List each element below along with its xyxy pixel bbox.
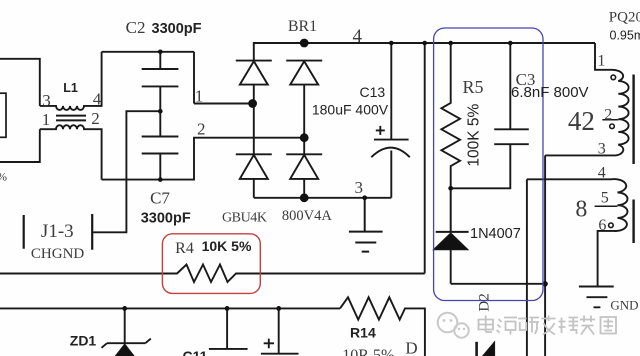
svg-text:4: 4 (598, 164, 606, 181)
resistor R4 (0, 265, 425, 283)
transformer secondary winding (527, 179, 628, 231)
junction output cap (276, 306, 281, 311)
svg-text:D: D (405, 339, 417, 356)
zener ZD1 (102, 308, 151, 347)
transformer tap pin5 (595, 205, 618, 207)
svg-text:5: 5 (601, 190, 609, 207)
capacitor C3 (494, 43, 529, 144)
junction C3 rail (508, 41, 513, 46)
svg-text:6.8nF 800V: 6.8nF 800V (511, 84, 589, 101)
junction C13 rail (389, 41, 394, 46)
transformer core (632, 75, 634, 244)
svg-text:C2: C2 (126, 18, 146, 37)
capacitor C13 (371, 43, 410, 198)
diode bridge lower-left (236, 104, 272, 198)
diode bridge upper-right (286, 61, 322, 138)
wire bottom rail / node2 to bridge (102, 138, 305, 180)
svg-text:1: 1 (597, 53, 605, 70)
svg-text:C13: C13 (359, 84, 385, 100)
phase dot pin6 (609, 223, 614, 228)
svg-text:180uF 400V: 180uF 400V (312, 102, 389, 118)
svg-text:PQ20: PQ20 (609, 10, 640, 26)
wire secondary rail (0, 307, 340, 309)
resistor R5 (441, 43, 460, 188)
svg-text:800V4A: 800V4A (282, 208, 332, 224)
blue highlight box snubber (434, 28, 543, 301)
svg-text:%: % (0, 169, 7, 183)
transformer primary winding (595, 43, 629, 155)
inductor L1 bottom winding (0, 125, 102, 179)
svg-text:2: 2 (91, 109, 100, 128)
resistor R14 (340, 297, 425, 356)
wire secondary pin6 to gnd (598, 231, 614, 287)
svg-text:4: 4 (352, 26, 362, 47)
svg-text:3: 3 (42, 91, 51, 110)
inductor L1 top winding (40, 52, 102, 110)
node big dot bridge bottom (300, 193, 309, 202)
junction C7 bottom (158, 177, 163, 182)
node big dot bridge top (300, 39, 309, 48)
junction snubber drain (542, 281, 547, 286)
transformer tap pin2 (602, 119, 618, 121)
svg-text:1: 1 (195, 87, 204, 106)
wire R5/C3 junction (451, 144, 511, 188)
svg-text:D2: D2 (477, 293, 493, 311)
svg-text:J1-3: J1-3 (41, 221, 74, 242)
diode D2 1N4007 (436, 188, 469, 232)
svg-text:CHGND: CHGND (31, 246, 85, 262)
svg-text:C7: C7 (150, 189, 170, 208)
connector J1-3 bars (24, 214, 93, 250)
svg-text:1: 1 (42, 110, 51, 129)
ground primary (349, 198, 383, 252)
red highlight box R4 (162, 234, 260, 294)
svg-text:10R 5%: 10R 5% (342, 347, 394, 356)
capacitor output electrolytic (261, 308, 299, 353)
phase dot pin1 (611, 75, 616, 80)
wire node1 from rail to bridge (194, 52, 253, 104)
junction ZD1 (122, 306, 127, 311)
capacitor C2 (142, 52, 179, 111)
wire L1 pin3 to left edge (0, 59, 40, 106)
svg-text:100K 5%: 100K 5% (466, 104, 483, 167)
svg-text:3: 3 (598, 141, 606, 158)
C13 plus sign (376, 126, 385, 135)
svg-text:0.95mH: 0.95mH (610, 28, 640, 42)
svg-text:3: 3 (354, 178, 363, 197)
diode clipped bottom right (475, 342, 478, 356)
svg-text:R5: R5 (462, 77, 483, 97)
svg-text:C11: C11 (183, 348, 208, 356)
capacitor C11 (209, 308, 248, 349)
junction R5 C3 bottom (448, 186, 453, 191)
node big dot mid-left node1 (248, 99, 257, 108)
svg-text:42: 42 (568, 106, 595, 136)
wire top rail to C2 (102, 51, 194, 53)
diode bridge lower-right (286, 138, 322, 198)
svg-text:3300pF: 3300pF (141, 210, 191, 226)
ground secondary (579, 287, 614, 308)
plus sign output cap (264, 339, 274, 349)
svg-text:4: 4 (93, 90, 102, 109)
svg-text:R4: R4 (175, 240, 194, 257)
svg-text:GND: GND (610, 298, 638, 313)
svg-text:10K 5%: 10K 5% (202, 238, 252, 254)
svg-text:2: 2 (604, 107, 612, 124)
svg-text:3300pF: 3300pF (152, 21, 202, 37)
svg-text:6: 6 (598, 217, 606, 234)
watermark text pseudo CJK (479, 316, 617, 335)
node big dot mid-right node2 (300, 133, 309, 142)
svg-text:GBU4K: GBU4K (222, 211, 267, 226)
svg-text:R14: R14 (350, 324, 376, 340)
junction R5 rail (448, 41, 453, 46)
junction C2 top (158, 50, 163, 55)
L1 core lines (56, 116, 86, 121)
connector stub left edge (0, 93, 6, 137)
svg-text:L1: L1 (63, 81, 78, 95)
watermark logo (438, 313, 469, 338)
svg-text:8: 8 (575, 197, 587, 223)
svg-text:ZD1: ZD1 (70, 332, 97, 348)
junction C11 (225, 306, 230, 311)
capacitor C7 (142, 111, 179, 179)
svg-text:2: 2 (197, 119, 206, 138)
junction riser rail (422, 41, 427, 46)
junction gnd tap (362, 195, 367, 200)
diode bridge upper-left (236, 61, 272, 104)
phase dot pin2 (610, 124, 615, 129)
bridge BR1 top rail / node 4 rail (254, 43, 595, 61)
wire riser R4 to rail (424, 43, 426, 274)
wire mid tap to J1-3 (92, 111, 160, 232)
wire primary pin3 to drain (545, 155, 616, 356)
svg-text:BR1: BR1 (288, 18, 317, 35)
wire bridge minus rail (254, 197, 391, 199)
svg-text:1N4007: 1N4007 (470, 226, 521, 242)
junction mid node C2/C7 (158, 109, 163, 114)
wire secondary pin4 riser (526, 179, 528, 356)
